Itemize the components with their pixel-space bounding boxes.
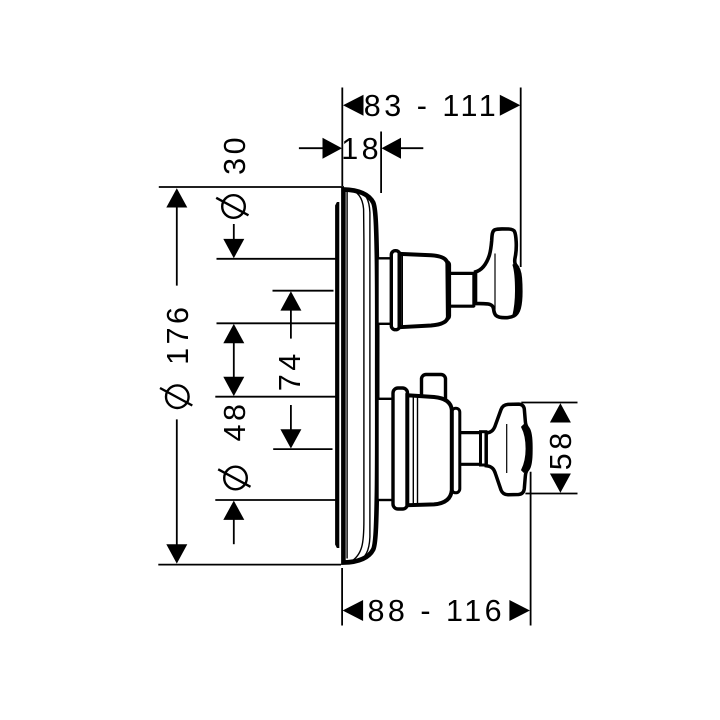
dim O30 lower arrow	[223, 324, 244, 343]
dim 88-116 right extension line	[530, 472, 532, 626]
dim O48 lower arrow	[223, 501, 244, 520]
dim 88-116 left extension line	[341, 568, 343, 626]
plate inner contour line A	[350, 190, 364, 562]
shared tail between O30 and O48 arrows	[233, 342, 235, 379]
dim 74 upper tail	[290, 309, 292, 339]
dim O30 tick line bottom	[217, 322, 337, 324]
dim O30 label diameter symbol	[216, 195, 248, 218]
dim O48 tick line top	[215, 396, 336, 398]
dim 74 lower arrow	[280, 429, 301, 448]
plate inner contour line B	[357, 190, 370, 561]
lower valve cap inner contour lines	[412, 396, 414, 504]
dim 58 upper arrow	[550, 403, 571, 422]
dim O176 top arrow	[166, 188, 187, 207]
dim O48 lower tail	[233, 518, 235, 544]
svg-text:18: 18	[341, 132, 382, 166]
dim 74 tick line bottom	[273, 448, 332, 450]
lower valve stem	[460, 433, 484, 465]
svg-text:48: 48	[218, 401, 252, 442]
svg-text:176: 176	[161, 304, 195, 365]
escutcheon plate back ring	[335, 202, 339, 548]
dim 18 right tail	[400, 147, 423, 149]
upper handle inner thin line	[494, 254, 496, 310]
dim O30 upper tail	[233, 224, 235, 241]
upper valve collar	[378, 258, 393, 324]
dim O48 tick line bottom	[215, 499, 336, 501]
dim 83-111 right extension line	[520, 88, 522, 268]
dim 18 right arrow	[382, 138, 402, 159]
dim 83-111 right arrow	[500, 95, 521, 116]
dim 83-111 left extension line	[341, 88, 343, 187]
lower handle dark side band	[522, 425, 531, 472]
lower valve collar	[378, 399, 394, 500]
lower valve cap right ring	[452, 408, 460, 493]
dim 74 tick line top	[273, 290, 334, 292]
svg-text:88 - 116: 88 - 116	[367, 594, 505, 628]
dim 18 left arrow	[323, 138, 343, 159]
dim 58 top extension line	[521, 402, 577, 404]
dim O176 lower tail	[176, 419, 178, 546]
escutcheon plate front profile	[343, 189, 377, 562]
upper valve stem end tick	[472, 273, 475, 307]
upper valve cap right ring	[443, 262, 450, 320]
svg-text:30: 30	[218, 134, 252, 175]
upper valve cap inner contour line	[401, 255, 403, 327]
upper handle dark side band	[513, 264, 521, 316]
dim O48 upper arrow	[223, 377, 244, 396]
upper valve cap body	[400, 254, 448, 327]
lower valve cap flange	[393, 388, 408, 509]
svg-text:83 - 111: 83 - 111	[364, 89, 499, 123]
upper cross handle	[476, 229, 521, 318]
dim O30 upper arrow	[223, 239, 244, 258]
dim 74 lower tail	[290, 405, 292, 432]
lower valve cap body	[407, 395, 452, 505]
upper valve stem	[450, 273, 475, 306]
dim 18 right extension line	[380, 132, 382, 194]
dim 18 left tail	[299, 147, 324, 149]
upper valve cap flange	[391, 251, 400, 330]
lower valve stem end ring	[481, 432, 487, 465]
dim O176 bottom extension line	[158, 564, 341, 566]
lower valve safety button	[422, 375, 446, 405]
dim 88-116 left arrow	[343, 600, 364, 621]
dim O176 bottom arrow	[166, 544, 187, 563]
dim O176 top extension line	[159, 186, 344, 188]
dim 74 upper arrow	[280, 291, 301, 310]
dim 58 bottom extension line	[525, 493, 577, 495]
dim 83-111 left arrow	[343, 95, 364, 116]
dim O176 upper tail	[176, 206, 178, 286]
dim O30 tick line top	[217, 258, 337, 260]
dim 58 lower arrow	[550, 474, 571, 493]
plate inner contour line near back	[346, 192, 348, 559]
dim O48 label diameter symbol	[218, 467, 250, 490]
dim 88-116 right arrow	[509, 600, 530, 621]
lower handle inner thin line	[506, 424, 508, 473]
svg-text:58: 58	[544, 429, 578, 470]
svg-text:74: 74	[273, 350, 307, 391]
lower cross handle	[486, 404, 531, 495]
dim O176 label diameter symbol	[160, 385, 192, 408]
